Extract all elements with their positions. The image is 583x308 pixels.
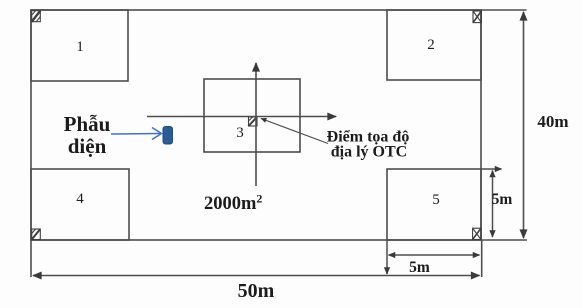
left extension line with arrow for 5m horizontal dimension (386, 240, 388, 274)
svg-text:5: 5 (432, 192, 440, 208)
svg-text:4: 4 (76, 191, 84, 207)
right extension line for 50m dimension (481, 240, 483, 277)
horizontal axis through plot 3 (147, 116, 336, 118)
svg-text:50m: 50m (238, 280, 275, 302)
svg-text:5m: 5m (409, 259, 430, 276)
corner marker bottom-left (hatched square) (32, 229, 41, 240)
plot 4 rectangle (31, 169, 129, 240)
blue soil-profile marker (small pill) (163, 127, 173, 145)
plot 1 rectangle (31, 10, 128, 81)
40m dimension line (523, 12, 525, 238)
blue arrow from Phau dien label (111, 128, 162, 140)
svg-text:Phẫu: Phẫu (64, 112, 111, 136)
corner marker bottom-right (hatched square) (473, 228, 481, 239)
5m vertical dimension line (492, 171, 494, 238)
corner marker top-left (hatched square) (32, 11, 41, 22)
svg-text:5m: 5m (492, 191, 513, 208)
plot 5 rectangle (387, 169, 481, 240)
plot 2 rectangle (387, 10, 481, 80)
5m horizontal dimension line (389, 254, 480, 256)
bottom edge extension line to 40m dimension (481, 239, 527, 241)
svg-text:3: 3 (236, 125, 244, 141)
callout arrow to OTC point (261, 119, 328, 144)
corner marker top-right (hatched square) (473, 11, 481, 23)
svg-text:địa lý OTC: địa lý OTC (331, 144, 407, 161)
vertical axis through plot 3 (255, 63, 257, 186)
svg-text:40m: 40m (537, 112, 568, 131)
svg-text:1: 1 (76, 39, 84, 55)
svg-text:diện: diện (68, 134, 107, 158)
center marker in plot 3 (hatched square, OTC coordinate point) (249, 117, 258, 126)
top edge extension line to 40m dimension (481, 9, 527, 11)
svg-text:2: 2 (427, 37, 435, 53)
svg-text:2000m2: 2000m2 (204, 192, 262, 215)
top extension line with arrow for 5m vertical dimension (481, 168, 502, 170)
left extension line for 50m dimension (30, 240, 32, 277)
outer boundary rectangle 50m x 40m (31, 10, 481, 240)
50m dimension line (33, 275, 480, 277)
plot 3 rectangle (center) (204, 79, 300, 152)
